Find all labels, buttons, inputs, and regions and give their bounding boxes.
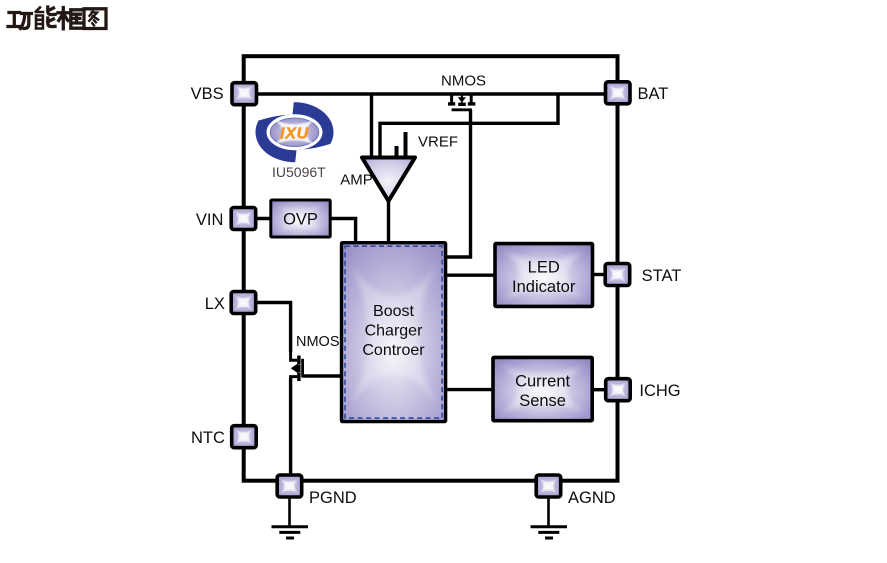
ground symbol PGND: [272, 498, 309, 538]
op-amp AMP triangle: [362, 158, 415, 202]
svg-text:IXU: IXU: [280, 125, 309, 142]
wire NMOS source to PGND: [289, 378, 292, 474]
svg-text:OVP: OVP: [283, 211, 318, 229]
功: [8, 13, 32, 29]
svg-text:VREF: VREF: [418, 134, 458, 151]
wire VIN to OVP: [255, 217, 272, 220]
svg-text:Boost: Boost: [373, 303, 414, 320]
wire NMOS gate to controller: [446, 110, 471, 257]
svg-text:Indicator: Indicator: [512, 278, 576, 296]
wire controller to Current Sense: [446, 388, 494, 391]
svg-text:VBS: VBS: [191, 85, 224, 103]
wire AMP input stub: [395, 146, 399, 158]
ground symbol AGND: [531, 498, 568, 538]
pin STAT: [605, 264, 630, 286]
transistor NMOS top: [448, 93, 475, 110]
wire VREF stub: [404, 132, 408, 158]
svg-text:IU5096T: IU5096T: [272, 164, 326, 180]
svg-text:ICHG: ICHG: [639, 382, 680, 400]
title 功能框图: [8, 7, 106, 29]
svg-text:AGND: AGND: [568, 489, 616, 507]
wire LX to NMOS drain: [255, 303, 291, 353]
svg-text:LED: LED: [528, 259, 560, 277]
pin VBS: [232, 83, 257, 105]
svg-text:Charger: Charger: [365, 323, 423, 340]
wire VBS to AMP input: [370, 94, 373, 158]
wire BAT sense to AMP input: [380, 94, 558, 158]
pin NTC: [232, 426, 257, 448]
block Boost Charger Controer: [342, 243, 446, 422]
svg-text:LX: LX: [205, 295, 225, 313]
svg-text:Sense: Sense: [519, 392, 566, 410]
block Current Sense: [493, 357, 592, 420]
chip boundary: [244, 56, 618, 481]
框: [58, 8, 82, 29]
svg-text:VIN: VIN: [196, 211, 224, 229]
svg-text:Current: Current: [515, 373, 570, 391]
图: [84, 9, 106, 29]
wire controller to LED Indicator: [446, 274, 495, 277]
svg-text:BAT: BAT: [638, 85, 669, 103]
svg-text:NMOS: NMOS: [296, 334, 340, 350]
block LED Indicator: [495, 244, 593, 307]
pin BAT: [606, 82, 631, 104]
wire OVP to controller: [329, 219, 356, 245]
svg-text:AMP: AMP: [340, 171, 373, 188]
transistor NMOS left: [291, 352, 303, 381]
wire AMP output to controller: [387, 198, 390, 244]
pin AGND: [536, 475, 561, 497]
wire VBS to BAT top bus: [246, 92, 616, 95]
logo IXU: [256, 102, 334, 162]
pin VIN: [231, 208, 256, 230]
wire NMOS gate to controller left: [302, 374, 342, 377]
pin ICHG: [606, 379, 631, 401]
wire LED Indicator to STAT: [593, 273, 606, 276]
svg-text:Controer: Controer: [362, 342, 425, 359]
pin LX: [231, 292, 256, 314]
block OVP: [271, 200, 330, 237]
能: [36, 7, 55, 29]
wire Current Sense to ICHG: [592, 388, 605, 391]
svg-text:STAT: STAT: [642, 267, 682, 285]
svg-text:NMOS: NMOS: [441, 73, 486, 90]
pin PGND: [277, 475, 302, 497]
svg-text:NTC: NTC: [191, 429, 225, 447]
svg-text:PGND: PGND: [309, 489, 357, 507]
